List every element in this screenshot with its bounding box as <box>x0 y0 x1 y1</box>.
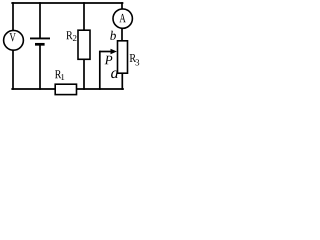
wire left branch upper <box>12 3 14 30</box>
battery short plate <box>35 43 45 46</box>
wire battery branch lower <box>39 45 41 89</box>
slider arrow head <box>111 49 117 55</box>
voltmeter V circle <box>4 30 24 50</box>
ammeter A circle <box>113 9 132 28</box>
battery long plate <box>30 37 50 39</box>
wire R3 terminal a to bottom wire <box>121 73 123 89</box>
wire R2 branch lower <box>83 59 85 89</box>
label R3 subscript 3 <box>136 59 140 65</box>
wire slider P vertical <box>99 52 101 90</box>
wire ammeter to R3 terminal b <box>121 29 123 42</box>
voltmeter letter V <box>10 33 16 41</box>
slider arrow shaft <box>100 51 112 53</box>
wire ammeter stub top <box>121 3 123 9</box>
label R1 subscript 1 <box>61 74 64 80</box>
node b label <box>110 31 116 40</box>
ammeter letter A <box>119 14 125 22</box>
wire bottom left segment <box>12 88 55 90</box>
resistor R2 box <box>78 30 90 59</box>
label R1 letter R <box>55 70 61 78</box>
wire top horizontal <box>12 2 122 4</box>
label R3 letter R <box>130 54 136 62</box>
rheostat R3 body <box>118 41 128 73</box>
wire battery branch upper <box>39 3 41 38</box>
node a label <box>111 70 118 78</box>
resistor R1 box <box>55 84 76 94</box>
label R2 subscript 2 <box>73 35 77 41</box>
wire left branch lower <box>12 51 14 90</box>
label R2 letter R <box>66 31 72 39</box>
slider P label <box>105 56 113 65</box>
wire bottom right segment <box>76 88 123 90</box>
wire R2 branch upper <box>83 3 85 30</box>
